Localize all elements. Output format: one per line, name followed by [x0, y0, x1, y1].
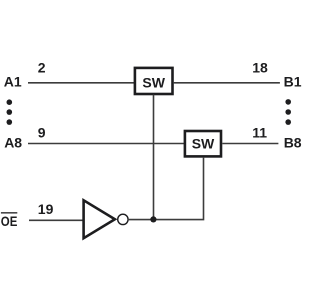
- wire A8 to SW2: [28, 143, 184, 145]
- svg-text:11: 11: [252, 124, 267, 140]
- wire SW1 to B1: [174, 82, 280, 84]
- svg-text:A8: A8: [4, 135, 22, 151]
- continuation dots A-side: [7, 99, 13, 125]
- continuation dots B-side: [285, 99, 291, 125]
- switch SW1: [135, 68, 173, 94]
- svg-text:9: 9: [38, 125, 46, 141]
- inverter U1: [84, 200, 129, 238]
- wire inverter output to SW2 riser: [129, 157, 204, 220]
- wire SW2 to B8: [222, 143, 278, 145]
- wire OE to inverter: [29, 219, 83, 221]
- port OE (active low): [1, 212, 18, 229]
- wire riser junction to SW1: [153, 95, 155, 220]
- svg-text:B8: B8: [284, 135, 302, 151]
- svg-text:18: 18: [252, 60, 268, 76]
- svg-text:2: 2: [38, 60, 46, 76]
- wire A1 to SW1: [28, 82, 134, 84]
- switch SW2: [185, 131, 221, 156]
- svg-text:B1: B1: [284, 73, 302, 89]
- svg-text:SW: SW: [142, 75, 165, 91]
- svg-text:19: 19: [38, 201, 54, 217]
- junction dot: [150, 216, 156, 222]
- svg-text:SW: SW: [192, 135, 215, 151]
- svg-text:OE: OE: [1, 213, 18, 229]
- svg-text:A1: A1: [4, 73, 22, 89]
